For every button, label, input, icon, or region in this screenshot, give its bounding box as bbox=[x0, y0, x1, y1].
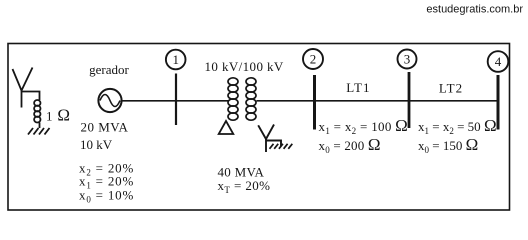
svg-text:1: 1 bbox=[172, 52, 179, 67]
svg-text:4: 4 bbox=[495, 54, 502, 69]
svg-text:2: 2 bbox=[310, 52, 317, 67]
svg-text:1 Ω: 1 Ω bbox=[46, 106, 71, 125]
svg-text:x1 = x2 = 50 Ω: x1 = x2 = 50 Ω bbox=[418, 116, 497, 136]
svg-text:3: 3 bbox=[404, 52, 411, 67]
svg-text:estudegratis.com.br: estudegratis.com.br bbox=[426, 4, 523, 16]
svg-text:20 MVA: 20 MVA bbox=[81, 120, 129, 135]
svg-text:10 kV/100 kV: 10 kV/100 kV bbox=[205, 59, 284, 74]
svg-text:x1 = x2 = 100 Ω: x1 = x2 = 100 Ω bbox=[319, 116, 409, 136]
svg-text:LT2: LT2 bbox=[439, 81, 463, 96]
svg-text:LT1: LT1 bbox=[346, 80, 370, 95]
svg-text:gerador: gerador bbox=[89, 62, 129, 77]
svg-text:10 kV: 10 kV bbox=[80, 137, 113, 152]
